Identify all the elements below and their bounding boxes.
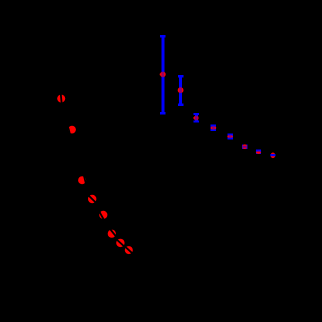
data point G (blue error box + red marker) (256, 150, 261, 154)
vertical line (161, 36, 164, 113)
data point H (red marker + blue bar through middle) (270, 153, 275, 159)
blue line over marker (179, 87, 182, 93)
bottom cap (178, 104, 183, 106)
data point P7 (116, 239, 124, 247)
red marker B (178, 87, 184, 93)
data point P2 (68, 126, 76, 134)
data point P1 (57, 95, 65, 103)
error bar B (blue) (178, 75, 183, 106)
vertical line (195, 115, 198, 122)
red marker A (160, 72, 166, 78)
red data series (filled circle markers) (57, 84, 137, 258)
vertical line (179, 76, 182, 105)
data point P5 (99, 211, 107, 219)
fit curve (black, drawn over markers) (60, 84, 138, 258)
top cap (178, 75, 183, 77)
red marker C (194, 116, 199, 121)
data point F (blue error box + red marker) (242, 144, 248, 149)
blue line over marker (162, 72, 165, 78)
error bar C (blue, short) (194, 113, 199, 123)
blue line over marker (195, 116, 198, 121)
data point P8 (125, 246, 133, 254)
bottom cap (194, 121, 199, 123)
data point P3 (78, 176, 86, 184)
data point E (blue error box + red marker) (227, 134, 233, 140)
data point P4 (88, 195, 96, 203)
data point P6 (108, 230, 116, 238)
data point D (blue error box + red marker) (211, 125, 217, 131)
top cap (194, 113, 199, 115)
error bar A (tall blue) (160, 35, 165, 114)
bottom cap (160, 112, 165, 114)
top cap (160, 35, 165, 37)
